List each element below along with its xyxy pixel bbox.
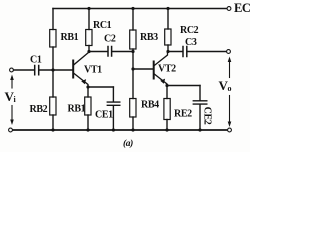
wire RC1 bottom lead xyxy=(88,46,90,52)
node base2 junction xyxy=(131,67,134,70)
resistor RB1 xyxy=(50,30,56,48)
capacitor C2 xyxy=(108,47,112,57)
resistor RB4 xyxy=(130,99,136,118)
node RB3 top junction xyxy=(131,7,134,10)
svg-text:VT2: VT2 xyxy=(158,63,176,74)
svg-text:(a): (a) xyxy=(123,138,133,149)
wire CE2 bottom lead xyxy=(199,105,201,130)
wire RE2 top lead xyxy=(166,86,168,99)
node emitter1 junction xyxy=(86,85,89,88)
wire CE1 bottom lead xyxy=(112,106,114,130)
svg-text:C3: C3 xyxy=(185,37,197,48)
capacitor CE2 xyxy=(193,101,207,104)
wire RE1 bottom lead xyxy=(87,115,89,130)
wire RC2 top lead xyxy=(167,9,169,30)
svg-text:VT1: VT1 xyxy=(84,64,102,75)
transistor VT1 xyxy=(73,52,89,87)
resistor RB2 xyxy=(50,97,56,115)
arrow Vi lower xyxy=(10,106,14,126)
svg-text:CE2: CE2 xyxy=(202,107,213,125)
wire RE1 top lead xyxy=(87,87,89,97)
svg-text:RB2: RB2 xyxy=(30,104,48,115)
node CE1 ground junction xyxy=(112,128,115,131)
terminal EC xyxy=(227,7,231,11)
svg-text:Vo: Vo xyxy=(219,78,232,93)
node RC1 top junction xyxy=(87,7,90,10)
capacitor C1 xyxy=(35,66,39,75)
arrow Vo upper xyxy=(228,57,232,78)
capacitor C3 xyxy=(183,47,187,57)
resistor RB3 xyxy=(130,30,136,49)
svg-text:RE2: RE2 xyxy=(174,109,192,120)
resistor RC2 xyxy=(165,29,171,45)
terminal output top xyxy=(227,50,231,54)
svg-text:RC1: RC1 xyxy=(93,20,112,31)
wire C1 to base VT1 xyxy=(40,69,73,71)
node collector1 junction xyxy=(87,50,90,53)
wire RC1 top lead xyxy=(88,9,90,30)
terminal input top xyxy=(10,68,14,72)
svg-text:C2: C2 xyxy=(104,34,116,45)
resistor RE1 xyxy=(85,97,91,115)
wire top rail EC xyxy=(53,8,227,10)
wire RB2 bottom lead xyxy=(52,115,54,130)
svg-text:RB1: RB1 xyxy=(61,32,79,43)
wire bottom rail xyxy=(13,129,228,131)
svg-text:RB1: RB1 xyxy=(68,104,86,115)
node RB4 ground junction xyxy=(131,128,134,131)
svg-text:C1: C1 xyxy=(30,55,42,66)
svg-text:EC: EC xyxy=(234,1,250,15)
node emitter2 junction xyxy=(165,84,168,87)
svg-text:CE1: CE1 xyxy=(95,110,113,121)
wire RB1 bottom lead xyxy=(52,47,54,70)
wire emitter1 to CE1 xyxy=(88,86,113,88)
wire CE1 top lead xyxy=(112,87,114,102)
wire CE2 top lead xyxy=(199,86,201,101)
svg-text:RC2: RC2 xyxy=(180,25,199,36)
node RC2 top junction xyxy=(166,7,169,10)
wire base2 xyxy=(133,68,153,70)
wire RB2 top lead xyxy=(52,70,54,97)
node RB2 ground junction xyxy=(51,128,54,131)
wire RB3 bottom lead xyxy=(132,49,134,69)
svg-text:RB3: RB3 xyxy=(140,32,158,43)
wire input to C1 xyxy=(14,69,35,71)
svg-text:RB4: RB4 xyxy=(141,100,159,111)
transistor VT2 xyxy=(154,52,168,86)
wire RB3 top lead xyxy=(132,9,134,31)
node base1 junction xyxy=(51,68,54,71)
resistor RC1 xyxy=(86,30,92,46)
arrow Vo lower xyxy=(228,96,232,128)
resistor RE2 xyxy=(164,99,170,120)
wire collector1 to C2 xyxy=(89,51,108,53)
node C2 junction xyxy=(131,50,134,53)
wire RE2 bottom lead xyxy=(166,120,168,131)
wire C3 to output terminal xyxy=(188,51,227,53)
wire emitter2 to CE2 xyxy=(167,85,200,87)
wire RB4 top lead xyxy=(132,69,134,99)
wire collector2 to C3 xyxy=(168,51,183,53)
wire C2 to RB3 column xyxy=(112,51,133,53)
wire RB4 bottom lead xyxy=(132,117,134,130)
node RE2 ground junction xyxy=(165,128,168,131)
node RE1 ground junction xyxy=(86,128,89,131)
node CE2 ground junction xyxy=(198,128,201,131)
capacitor CE1 xyxy=(107,102,120,105)
terminal input bottom xyxy=(9,128,13,132)
arrow Vi upper xyxy=(10,75,14,89)
terminal output bottom xyxy=(228,128,232,132)
wire RC2 bottom lead xyxy=(167,45,169,52)
wire RB1 top lead xyxy=(52,9,54,30)
svg-text:Vi: Vi xyxy=(5,89,17,104)
node collector2 junction xyxy=(166,50,169,53)
